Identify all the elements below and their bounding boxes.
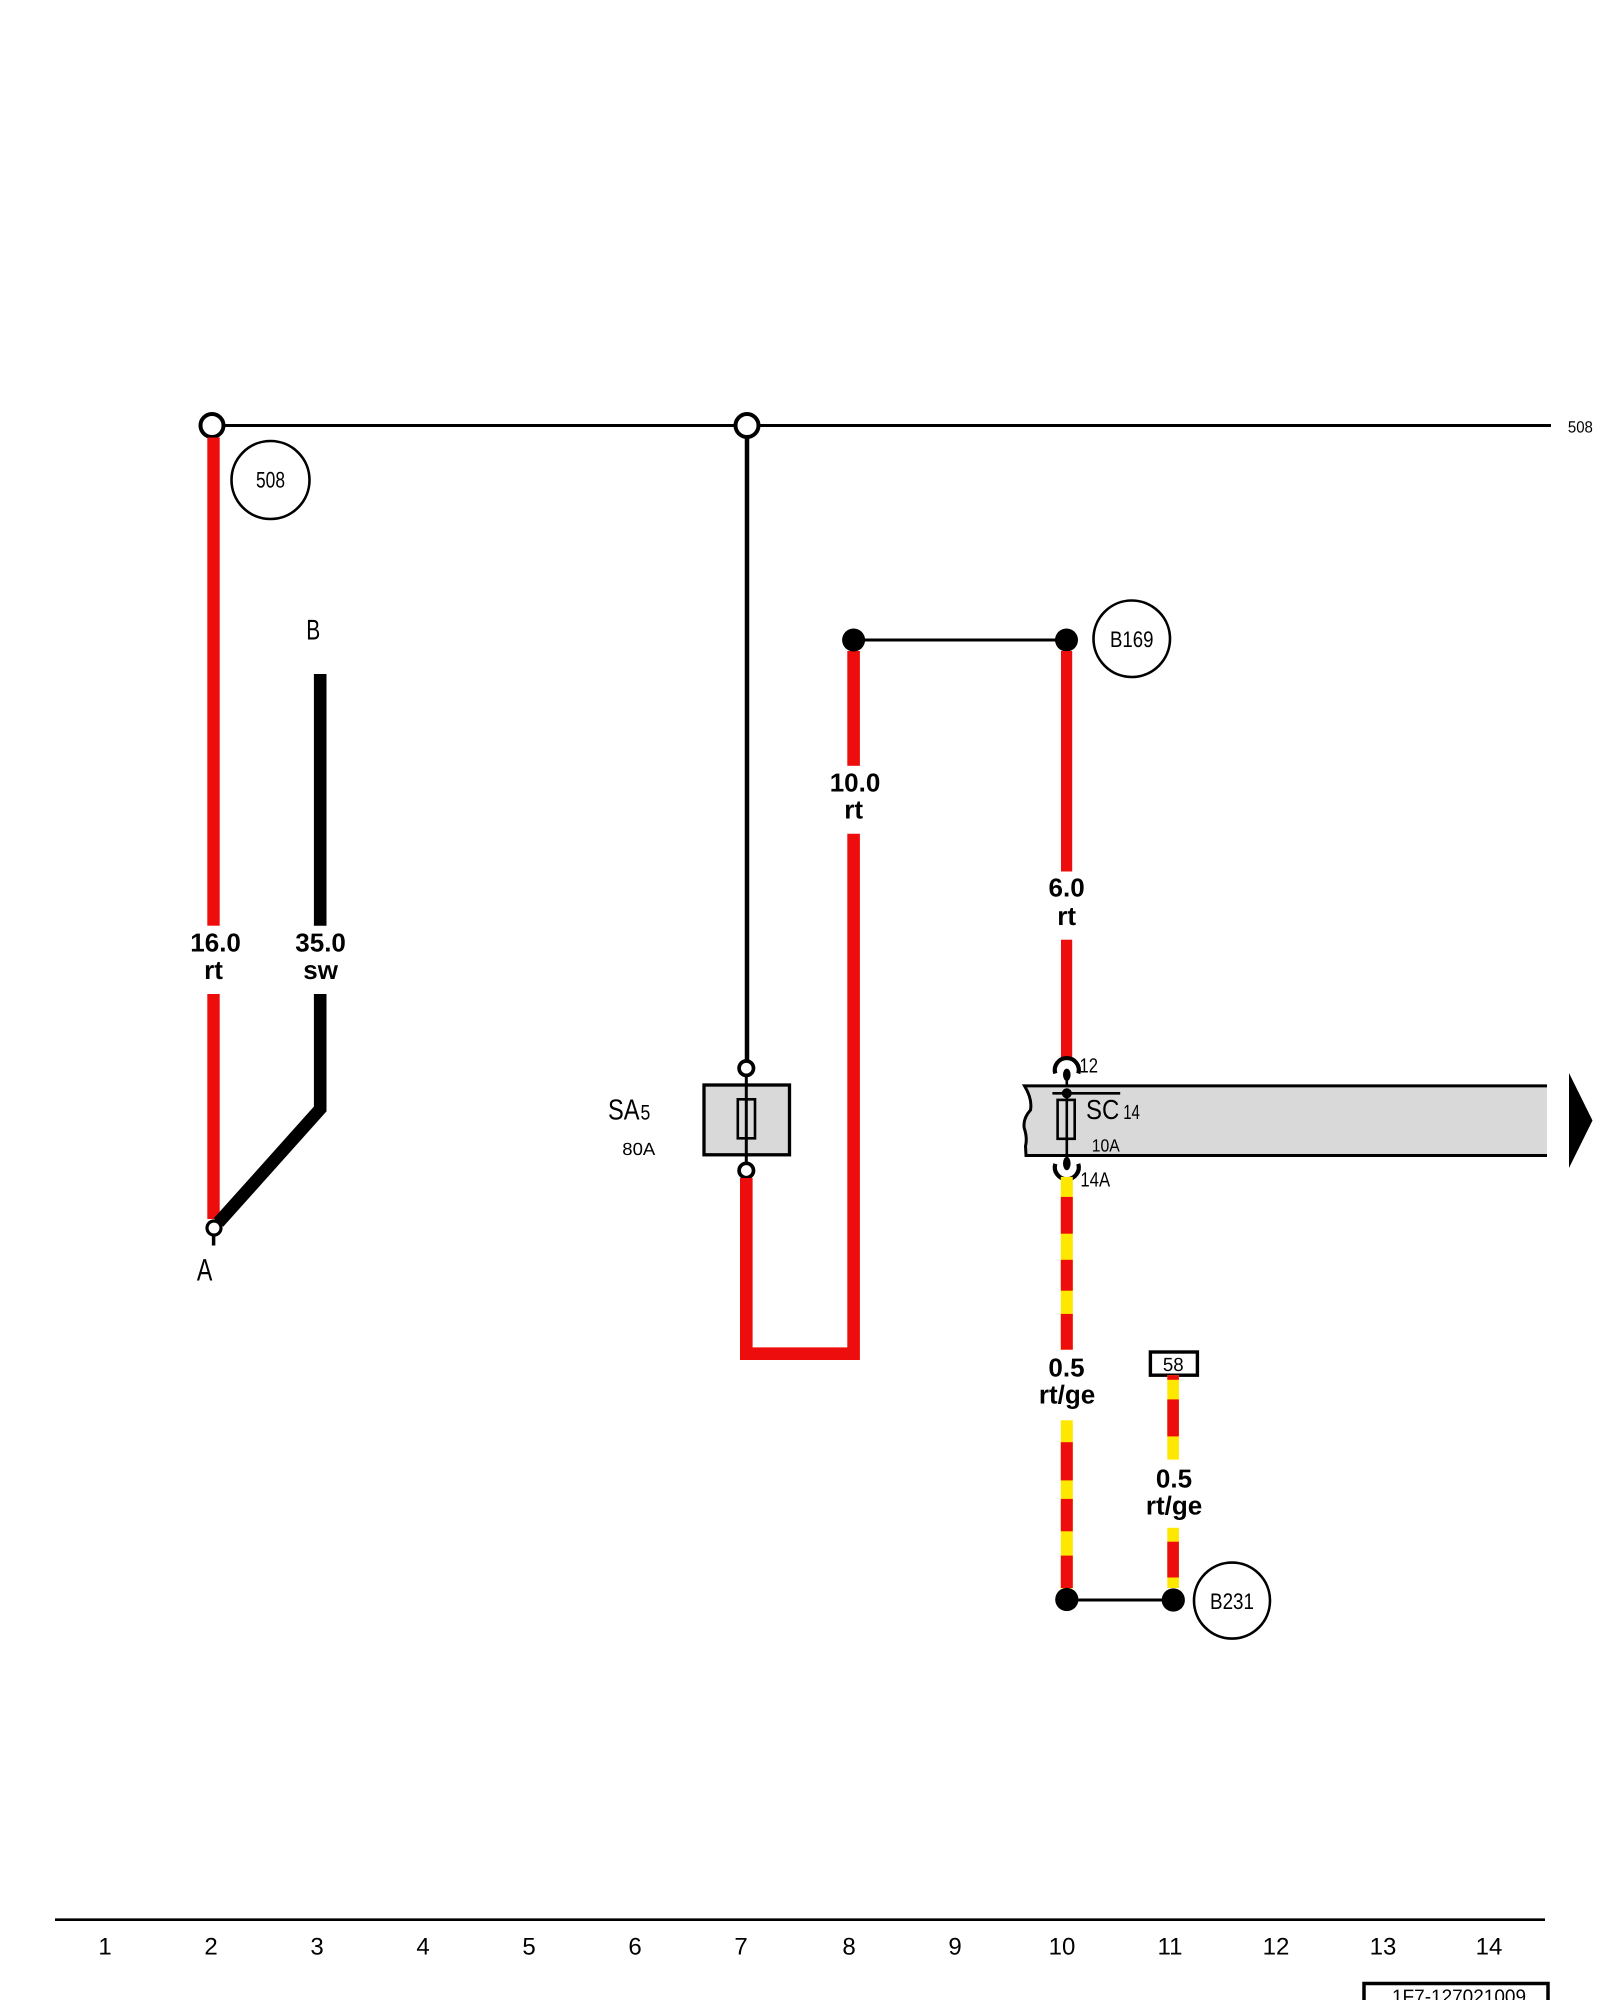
junction dot bottom-left: [1055, 1588, 1078, 1611]
svg-text:sw: sw: [303, 955, 338, 985]
wire 35.0 sw (black, upper): [314, 674, 327, 926]
svg-text:B231: B231: [1210, 1589, 1254, 1614]
svg-text:0.5: 0.5: [1156, 1463, 1192, 1493]
svg-text:10A: 10A: [1092, 1136, 1120, 1156]
net ref circle 508: [232, 441, 310, 519]
svg-text:508: 508: [256, 467, 285, 492]
wire 6.0 rt (red, lower): [1061, 940, 1072, 1059]
svg-text:10: 10: [1049, 1933, 1076, 1960]
pin 12 socket: [1055, 1058, 1079, 1073]
junction dot right: [1055, 629, 1078, 652]
svg-text:12: 12: [1080, 1055, 1099, 1078]
svg-text:B: B: [306, 615, 320, 647]
grid baseline: [55, 1918, 1545, 1921]
svg-text:35.0: 35.0: [295, 927, 346, 957]
wire: bus to SA5 fuse: [745, 438, 750, 1062]
svg-text:rt/ge: rt/ge: [1039, 1380, 1095, 1410]
fuse SA5 element: [738, 1099, 755, 1138]
wire: bus line 508: [212, 424, 1551, 427]
svg-text:5: 5: [522, 1933, 535, 1960]
svg-text:5: 5: [641, 1102, 651, 1125]
svg-text:0.5: 0.5: [1048, 1352, 1084, 1382]
svg-text:58: 58: [1163, 1355, 1184, 1376]
wire 10.0 rt (red L-shape from SA5): [746, 834, 853, 1354]
svg-text:6.0: 6.0: [1049, 873, 1085, 903]
svg-text:16.0: 16.0: [190, 927, 241, 957]
svg-text:rt/ge: rt/ge: [1146, 1491, 1202, 1521]
svg-text:rt: rt: [844, 795, 863, 825]
title block: [1364, 1984, 1548, 2000]
svg-text:13: 13: [1370, 1933, 1397, 1960]
fuse SA5 box: [704, 1085, 790, 1155]
svg-text:SA: SA: [608, 1095, 640, 1127]
node: bus tap left: [201, 414, 224, 437]
terminal circle below SA5: [739, 1163, 753, 1177]
svg-text:12: 12: [1263, 1933, 1290, 1960]
terminal circle above SA5: [739, 1061, 753, 1075]
svg-text:9: 9: [948, 1933, 961, 1960]
wire: bottom junction link: [1067, 1599, 1174, 1602]
svg-text:B169: B169: [1110, 627, 1154, 652]
svg-text:80A: 80A: [622, 1139, 655, 1159]
svg-text:4: 4: [416, 1933, 429, 1960]
junction dot left: [842, 629, 865, 652]
svg-text:7: 7: [734, 1933, 747, 1960]
svg-text:SC: SC: [1086, 1094, 1119, 1125]
pin 14A socket: [1063, 1157, 1071, 1171]
junction dot bottom-right: [1162, 1588, 1185, 1611]
wire 35.0 sw (black, lower + diagonal): [219, 994, 321, 1223]
svg-text:14: 14: [1476, 1933, 1503, 1960]
svg-text:rt: rt: [204, 955, 223, 985]
svg-text:508: 508: [1568, 419, 1593, 437]
svg-text:rt: rt: [1057, 901, 1076, 931]
svg-text:1: 1: [98, 1933, 111, 1960]
node A terminal: [207, 1221, 221, 1235]
wire: junction link: [854, 639, 1067, 642]
svg-text:A: A: [197, 1253, 213, 1288]
net ref circle B169: [1094, 601, 1171, 678]
bus bar inside strip: [1052, 1092, 1120, 1095]
svg-text:2: 2: [204, 1933, 217, 1960]
wire 16.0 rt (red, lower): [207, 994, 219, 1219]
net ref circle B231: [1194, 1563, 1270, 1639]
wire 0.5 rt/ge (left, lower): [1061, 1420, 1073, 1588]
fuse strip SC band: [1024, 1086, 1547, 1156]
terminal 58 box: [1150, 1352, 1197, 1375]
svg-text:6: 6: [628, 1933, 641, 1960]
wire 16.0 rt (red, upper): [207, 438, 219, 926]
wire 6.0 rt (red, upper): [1061, 651, 1072, 872]
fuse SC14 element: [1066, 1093, 1069, 1162]
svg-text:3: 3: [310, 1933, 323, 1960]
svg-text:14A: 14A: [1080, 1169, 1110, 1192]
arrow: strip continues right: [1569, 1073, 1593, 1168]
wire 0.5 rt/ge (right, upper): [1167, 1375, 1179, 1459]
svg-text:10.0: 10.0: [830, 767, 881, 797]
wire 0.5 rt/ge (left, upper): [1061, 1177, 1073, 1350]
node: bus tap middle: [736, 414, 759, 437]
svg-text:14: 14: [1123, 1101, 1140, 1124]
wire 0.5 rt/ge (right, lower): [1167, 1528, 1179, 1588]
wire 10.0 rt (red, upper): [847, 651, 860, 766]
svg-text:1F7-127021009: 1F7-127021009: [1392, 1986, 1526, 2000]
svg-text:11: 11: [1158, 1933, 1183, 1960]
svg-text:8: 8: [842, 1933, 855, 1960]
